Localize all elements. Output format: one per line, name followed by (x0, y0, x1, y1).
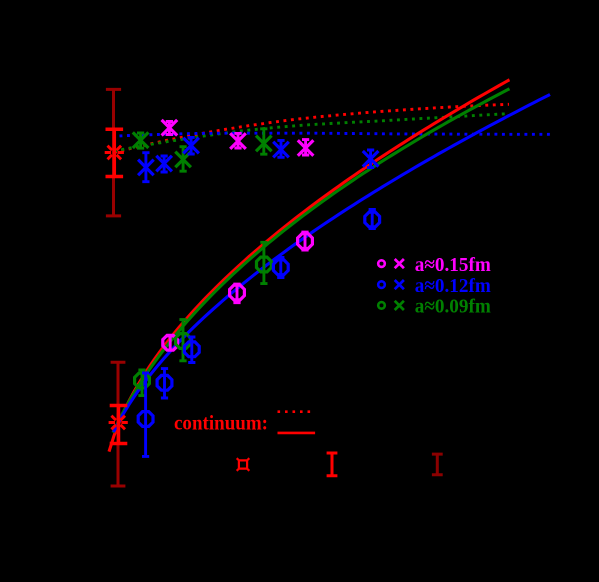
blue circle data point 1 (184, 337, 199, 363)
red dotted curve (114, 104, 509, 152)
green X data point 3 (256, 129, 272, 154)
red inner error bar lower left (110, 406, 128, 444)
legend row a=0.15fm (378, 254, 491, 276)
blue circle data point 2 (157, 369, 172, 398)
blue X data point 5 (363, 150, 379, 168)
svg-text:continuum:: continuum: (174, 411, 268, 435)
green circle data point 3 (257, 242, 272, 283)
green solid a009 curve (113, 89, 510, 433)
blue X data point 3 (183, 137, 199, 154)
magenta X data point 3 (298, 140, 314, 156)
red fancy square marker (237, 458, 250, 471)
blue circle data point 5 (365, 210, 380, 229)
green circle data point 1 (176, 320, 191, 361)
svg-text:a≈0.12fm: a≈0.12fm (415, 275, 491, 297)
magenta circle data point 5 (298, 232, 313, 250)
green X data point 2 (175, 147, 191, 172)
dark red outer error bar lower left (111, 362, 126, 486)
red burst marker upper left (105, 143, 124, 162)
legend row a=0.09fm (378, 296, 491, 318)
magenta X data point 2 (230, 133, 246, 149)
green X data point 1 (133, 132, 149, 148)
legend row a=0.12fm (378, 275, 491, 297)
blue X data point 1 (138, 153, 154, 182)
blue circle data point 3 (138, 373, 153, 456)
continuum legend dotted line sample (278, 410, 315, 413)
magenta circle data point 4 (230, 284, 245, 303)
magenta circle data point 1 (163, 335, 178, 350)
magenta X data point 1 (162, 120, 178, 136)
dark red outer error bar upper left (106, 89, 121, 215)
red solid continuum curve (109, 80, 510, 452)
blue X data point 2 (156, 156, 172, 172)
red burst marker lower left (109, 413, 128, 432)
blue solid a012 curve (114, 95, 551, 433)
green dotted curve (114, 114, 509, 151)
continuum legend solid line sample (278, 432, 316, 435)
dark red error bar bottom right (432, 454, 443, 475)
svg-text:a≈0.09fm: a≈0.09fm (415, 296, 491, 318)
green circle data point 2 (135, 370, 150, 396)
red error bar bottom left (327, 453, 338, 476)
blue X data point 4 (273, 140, 289, 157)
svg-text:a≈0.15fm: a≈0.15fm (415, 254, 491, 276)
red inner error bar upper left (106, 129, 124, 176)
blue dotted curve (112, 133, 550, 136)
blue circle data point 4 (273, 258, 288, 278)
